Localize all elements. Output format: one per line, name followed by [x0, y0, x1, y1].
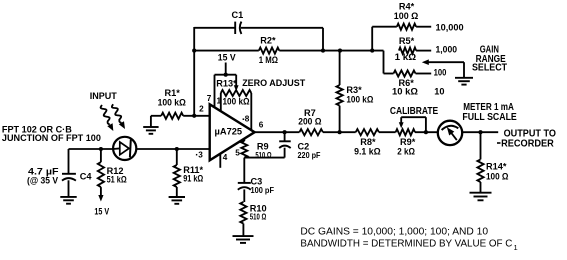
svg-text:100 kΩ: 100 kΩ [158, 98, 186, 108]
svg-text:R9*: R9* [400, 137, 416, 147]
svg-text:1: 1 [514, 243, 518, 252]
svg-text:1: 1 [217, 96, 222, 105]
svg-text:R8*: R8* [360, 137, 376, 147]
svg-text:4: 4 [223, 153, 228, 162]
svg-text:10 kΩ: 10 kΩ [392, 86, 418, 96]
svg-text:2 kΩ: 2 kΩ [397, 147, 415, 157]
svg-text:DC GAINS = 10,000; 1,000; 100;: DC GAINS = 10,000; 1,000; 100; AND 10 [300, 227, 488, 238]
svg-text:2: 2 [199, 104, 204, 113]
svg-text:INPUT: INPUT [90, 91, 117, 102]
svg-text:7: 7 [207, 94, 212, 103]
svg-text:8: 8 [245, 115, 250, 124]
svg-text:R14*: R14* [486, 162, 507, 172]
svg-text:10: 10 [434, 87, 444, 97]
svg-text:9.1 kΩ: 9.1 kΩ [354, 147, 381, 157]
svg-text:15 V: 15 V [94, 207, 109, 217]
svg-text:91 kΩ: 91 kΩ [183, 174, 203, 184]
svg-text:6: 6 [259, 121, 264, 130]
svg-text:BANDWIDTH = DETERMINED BY VALU: BANDWIDTH = DETERMINED BY VALUE OF C [300, 239, 512, 250]
svg-text:SELECT: SELECT [472, 63, 507, 74]
svg-text:100 kΩ: 100 kΩ [346, 94, 373, 104]
svg-text:1 MΩ: 1 MΩ [259, 55, 278, 65]
svg-text:5: 5 [235, 149, 240, 158]
svg-text:51 kΩ: 51 kΩ [107, 175, 127, 185]
svg-text:510 Ω: 510 Ω [250, 211, 267, 221]
svg-text:3: 3 [198, 151, 203, 160]
svg-text:R2*: R2* [260, 36, 276, 46]
svg-text:220 pF: 220 pF [298, 150, 321, 160]
svg-text:10,000: 10,000 [436, 22, 464, 32]
svg-text:R5*: R5* [399, 36, 415, 46]
svg-text:R13*: R13* [216, 78, 237, 88]
svg-text:15 V: 15 V [218, 53, 237, 63]
svg-text:200 Ω: 200 Ω [298, 117, 321, 127]
svg-text:ZERO ADJUST: ZERO ADJUST [242, 78, 305, 89]
svg-text:R3*: R3* [346, 85, 362, 95]
svg-text:100 pF: 100 pF [251, 185, 275, 195]
svg-text:JUNCTION OF FPT 100: JUNCTION OF FPT 100 [2, 133, 101, 144]
svg-text:100: 100 [434, 68, 447, 78]
svg-text:RECORDER: RECORDER [501, 139, 554, 150]
svg-text:100 Ω: 100 Ω [394, 11, 419, 21]
svg-text:100 Ω: 100 Ω [486, 171, 509, 181]
svg-text:100 kΩ: 100 kΩ [223, 96, 250, 106]
svg-text:1 kΩ: 1 kΩ [395, 52, 417, 62]
svg-text:510 Ω: 510 Ω [255, 150, 271, 160]
svg-text:(@ 35 V: (@ 35 V [27, 175, 59, 185]
svg-text:C1: C1 [232, 10, 244, 20]
svg-text:CALIBRATE: CALIBRATE [390, 106, 438, 117]
svg-text:C4: C4 [80, 171, 93, 181]
svg-text:µA725: µA725 [215, 126, 243, 136]
svg-text:1,000: 1,000 [436, 45, 458, 55]
svg-text:FULL SCALE: FULL SCALE [462, 112, 517, 123]
